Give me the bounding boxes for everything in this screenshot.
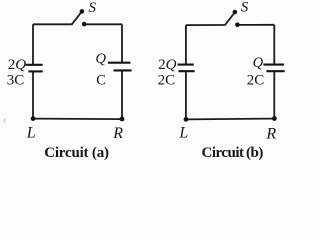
svg-text:S: S: [89, 0, 97, 16]
svg-text:R: R: [112, 125, 123, 142]
switch S blade (a): [72, 12, 82, 25]
wire bottom (a): [33, 118, 122, 121]
wire right lower (a): [121, 70, 123, 119]
faint scan speck left margin: [3, 119, 6, 123]
wire left lower (a): [32, 71, 34, 118]
node L junction dot (a): [31, 116, 36, 121]
wire top-right segment (b): [237, 24, 274, 26]
svg-text:2C: 2C: [158, 73, 176, 89]
svg-text:L: L: [26, 125, 36, 142]
wire right upper (b): [273, 25, 275, 65]
svg-text:Q: Q: [96, 51, 107, 67]
node R junction dot (b): [272, 116, 277, 121]
wire top-left segment (a): [33, 23, 72, 25]
switch S lower contact dot (a): [82, 22, 87, 27]
switch S upper contact dot (b): [233, 10, 238, 15]
svg-text:C: C: [96, 73, 106, 89]
capacitor 2C-right bottom plate (b): [266, 70, 284, 72]
capacitor 3C bottom plate (a): [28, 70, 42, 72]
capacitor 2C-left top plate with label dash (b): [178, 64, 194, 66]
svg-text:Circuit (a): Circuit (a): [44, 145, 109, 161]
node L junction dot (b): [184, 117, 189, 122]
capacitor C bottom plate (a): [114, 69, 132, 71]
svg-text:S: S: [241, 0, 249, 16]
switch S lower contact dot (b): [235, 22, 240, 27]
capacitor 2C-right top plate with label dash (b): [263, 64, 284, 66]
svg-text:Circuit (b): Circuit (b): [202, 145, 264, 161]
wire top-right segment (a): [84, 23, 122, 25]
svg-text:R: R: [265, 125, 276, 142]
svg-text:2Q: 2Q: [8, 57, 27, 73]
wire left upper (b): [185, 25, 187, 65]
wire left upper (a): [32, 24, 34, 65]
wire left lower (b): [185, 71, 187, 119]
svg-text:2Q: 2Q: [158, 57, 177, 73]
svg-text:L: L: [178, 124, 188, 141]
wire right upper (a): [121, 24, 123, 62]
node R junction dot (a): [120, 117, 125, 122]
capacitor 3C top plate with label dash (a): [26, 64, 43, 66]
wire top-left segment (b): [186, 24, 225, 26]
capacitor 2C-left bottom plate (b): [179, 70, 195, 72]
switch S upper contact dot (a): [80, 9, 85, 14]
svg-text:2C: 2C: [247, 73, 265, 89]
switch S blade (b): [225, 13, 235, 26]
capacitor C top plate with label dash (a): [108, 62, 130, 64]
wire right lower (b): [273, 71, 275, 119]
svg-text:Q: Q: [253, 55, 264, 71]
svg-text:3C: 3C: [7, 73, 25, 89]
wire bottom (b): [186, 118, 274, 121]
